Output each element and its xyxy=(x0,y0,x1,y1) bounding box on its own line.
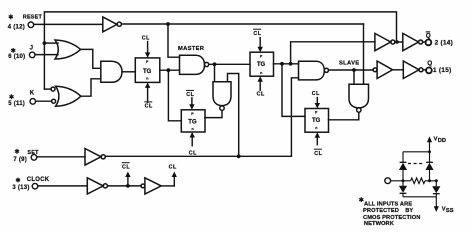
svg-text:n: n xyxy=(315,126,317,130)
svg-text:TG: TG xyxy=(143,69,152,75)
svg-text:PROTECTED: PROTECTED xyxy=(363,208,399,214)
svg-text:CLOCK: CLOCK xyxy=(27,177,50,183)
svg-text:RESET: RESET xyxy=(23,15,43,21)
svg-text:CL: CL xyxy=(314,151,322,157)
svg-text:2 (14): 2 (14) xyxy=(435,39,454,46)
svg-text:Q: Q xyxy=(426,32,431,39)
svg-text:SET: SET xyxy=(27,150,39,156)
svg-text:DD: DD xyxy=(438,138,446,144)
svg-text:TG: TG xyxy=(257,62,266,68)
svg-text:3 (13): 3 (13) xyxy=(12,185,29,191)
svg-text:CL: CL xyxy=(312,91,320,97)
svg-text:6 (10): 6 (10) xyxy=(8,54,25,60)
svg-text:CL: CL xyxy=(186,92,194,98)
svg-text:CL: CL xyxy=(145,104,153,110)
svg-text:CL: CL xyxy=(257,91,265,97)
svg-text:K: K xyxy=(30,90,35,96)
svg-text:CL: CL xyxy=(169,164,177,170)
svg-text:CL: CL xyxy=(253,31,261,37)
svg-text:ALL INPUTS ARE: ALL INPUTS ARE xyxy=(364,201,412,207)
svg-text:CL: CL xyxy=(122,164,130,170)
svg-text:n: n xyxy=(192,127,194,131)
svg-text:7 (9): 7 (9) xyxy=(13,157,27,163)
svg-text:1 (15): 1 (15) xyxy=(433,67,452,74)
svg-text:CL: CL xyxy=(142,36,150,42)
svg-text:SS: SS xyxy=(446,208,454,214)
svg-text:NETWORK: NETWORK xyxy=(364,221,395,227)
svg-text:SLAVE: SLAVE xyxy=(339,60,359,66)
svg-text:Q: Q xyxy=(427,60,432,67)
svg-text:MASTER: MASTER xyxy=(178,46,205,52)
svg-text:5 (11): 5 (11) xyxy=(8,101,25,107)
svg-text:n: n xyxy=(260,71,262,75)
svg-text:J: J xyxy=(30,46,34,52)
svg-text:TG: TG xyxy=(188,119,197,125)
svg-text:CL: CL xyxy=(189,151,197,157)
svg-text:BY: BY xyxy=(405,208,413,214)
svg-text:4 (12): 4 (12) xyxy=(8,24,25,30)
svg-text:TG: TG xyxy=(312,118,321,124)
svg-text:n: n xyxy=(146,77,148,81)
